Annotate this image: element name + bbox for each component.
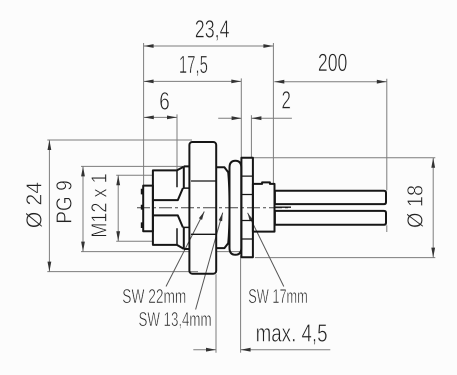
svg-text:SW 13,4mm: SW 13,4mm bbox=[139, 309, 212, 331]
svg-text:SW 17mm: SW 17mm bbox=[248, 286, 308, 308]
svg-text:200: 200 bbox=[318, 49, 348, 77]
svg-text:17,5: 17,5 bbox=[179, 51, 208, 79]
svg-text:PG 9: PG 9 bbox=[52, 180, 77, 224]
svg-text:M12 x 1: M12 x 1 bbox=[87, 173, 112, 238]
svg-text:23,4: 23,4 bbox=[195, 16, 230, 44]
svg-text:max. 4,5: max. 4,5 bbox=[256, 319, 328, 347]
svg-text:6: 6 bbox=[159, 88, 170, 116]
svg-text:Ø 24: Ø 24 bbox=[22, 182, 47, 229]
svg-text:SW 22mm: SW 22mm bbox=[122, 286, 186, 308]
svg-text:2: 2 bbox=[282, 87, 291, 115]
svg-text:Ø 18: Ø 18 bbox=[403, 185, 428, 228]
